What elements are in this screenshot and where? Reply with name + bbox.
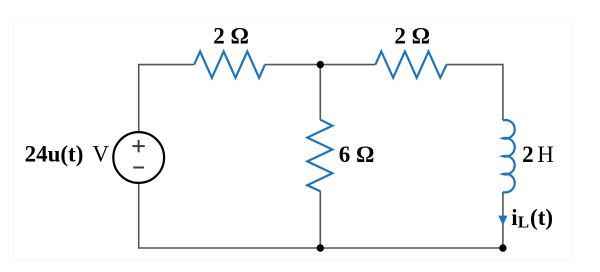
voltage source plus sign	[132, 140, 144, 152]
svg-text:2 Ω: 2 Ω	[394, 24, 430, 49]
inductor L1 (2 H)	[503, 120, 515, 192]
resistor R1 (2 ohm, top-left)	[194, 51, 265, 77]
wire: R1 to top-centre node to R2	[265, 64, 375, 66]
svg-text:iL(t): iL(t)	[511, 205, 553, 232]
resistor R2 (2 ohm, top-right)	[375, 51, 446, 77]
voltage source V1 circle	[113, 132, 164, 183]
svg-text:2 Ω: 2 Ω	[213, 24, 249, 49]
node B (bottom centre junction)	[317, 244, 324, 251]
voltage source minus sign	[133, 167, 144, 169]
svg-text:2H: 2H	[522, 142, 554, 167]
resistor R3 (6 ohm, centre branch)	[307, 120, 332, 192]
node C (bottom right junction)	[499, 244, 506, 251]
current arrow iL	[498, 216, 507, 226]
svg-text:6 Ω: 6 Ω	[339, 142, 375, 167]
svg-text:24u(t)V: 24u(t)V	[25, 142, 110, 167]
wire: inductor bottom down to bottom-right node	[502, 192, 504, 248]
wire: centre branch bottom segment	[319, 191, 321, 248]
node A (top centre junction)	[317, 61, 324, 68]
wire: source bottom to bottom-left corner, bottom bus to bottom-right node	[139, 183, 503, 248]
wire: R2 to top-right corner down to inductor top	[447, 65, 503, 121]
wire: left branch top (source top to top-left corner to R1)	[139, 65, 195, 133]
wire: centre branch top segment	[319, 65, 321, 120]
